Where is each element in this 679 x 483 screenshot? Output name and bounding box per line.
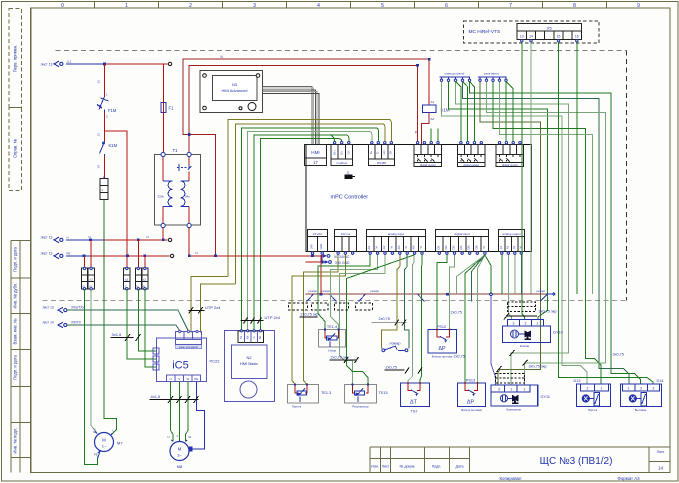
svg-text:V: V [178,377,180,381]
svg-text:Рекуператор: Рекуператор [352,405,369,409]
svg-text:3x0,75: 3x0,75 [613,353,624,357]
svg-text:D1-: D1- [340,150,344,154]
actuator GY11 [491,385,538,406]
wire bundle comms left (olive pair to RS485) [228,120,391,331]
wire olive TE1.3 pair [292,255,345,385]
coil K1M [428,59,430,105]
svg-text:x2: x2 [90,278,94,282]
svg-text:K1M: K1M [109,143,118,148]
svg-text:13: 13 [520,34,524,38]
svg-text:AI4: AI4 [412,245,416,249]
svg-text:analog input: analog input [388,232,405,236]
svg-text:Фильтр притока: Фильтр притока [432,354,453,358]
hop reserve right [541,293,556,301]
svg-text:3x1,5: 3x1,5 [112,332,123,337]
screen box TE15 [335,303,349,310]
HMI panel N2 [225,330,275,402]
connector RS485 [369,145,395,166]
wire iC5 motor leads [171,382,188,442]
wire iC5 comms drop [191,276,236,332]
svg-text:digital output: digital output [420,163,436,167]
svg-text:лист 13: лист 13 [43,306,54,310]
svg-text:Инв. № дубл.: Инв. № дубл. [13,283,18,309]
svg-text:DI6: DI6 [474,245,478,250]
svg-text:14: 14 [658,466,664,471]
svg-text:M8: M8 [177,464,183,469]
svg-text:J1: J1 [347,170,351,174]
wire RX1 [67,310,188,331]
svg-text:GY10: GY10 [553,331,563,335]
svg-text:N: N [94,428,96,432]
svg-text:24V out: 24V out [341,232,351,236]
wire X0 24VAC arrow [313,255,323,262]
svg-text:A1: A1 [499,245,503,249]
wire K1M A2 [422,113,430,145]
connector digital input [436,230,489,252]
svg-text:D14: D14 [657,379,664,383]
svg-text:N: N [136,285,138,289]
svg-text:A2: A2 [505,245,509,249]
svg-text:13: 13 [97,133,101,137]
svg-text:ТЕ1.4: ТЕ1.4 [327,325,337,329]
wire PS13 pair [457,255,492,383]
svg-text:резерв: резерв [309,290,318,293]
svg-text:комм. интерфейс: комм. интерфейс [179,346,199,349]
wire TE1.4 pair steps [318,255,378,330]
fuse holder FU below K1M [100,179,108,200]
svg-text:F1: F1 [169,106,175,111]
svg-text:A1: A1 [431,100,435,104]
wire PS12 pair [437,255,455,330]
connector digital output 1 [414,145,441,167]
svg-text:8: 8 [573,3,576,9]
svg-text:N: N [196,251,198,255]
svg-text:DI3: DI3 [452,245,456,250]
svg-text:230v: 230v [158,195,165,199]
svg-text:UTP 2x4: UTP 2x4 [205,305,221,310]
sensor TS7 [401,383,430,407]
cable HMI N3 gray [263,87,319,145]
svg-text:№ докум.: № докум. [400,465,416,469]
svg-text:M: M [375,246,379,248]
svg-text:D-: D- [376,151,380,154]
svg-text:A2: A2 [431,117,435,121]
svg-text:HMI Basic: HMI Basic [240,361,258,366]
svg-text:2x0,75 экр: 2x0,75 экр [331,356,349,360]
svg-text:U: U [168,435,170,439]
svg-text:RXx/TXx: RXx/TXx [72,306,85,310]
svg-text:M: M [102,438,106,443]
svg-text:13: 13 [97,80,101,84]
svg-text:1L1: 1L1 [67,59,72,63]
wire RX2 [67,325,180,331]
wire X5 15 [559,42,654,384]
svg-text:Взам. инв. №: Взам. инв. № [13,318,18,344]
wire N line A [183,59,429,256]
svg-text:HMI: HMI [311,150,319,155]
svg-text:Лист: Лист [657,450,665,454]
svg-text:2x0,75: 2x0,75 [386,366,397,370]
svg-text:GN: GN [382,150,386,154]
svg-text:2: 2 [189,3,192,9]
svg-text:M: M [178,447,182,452]
svg-text:TS7: TS7 [411,410,418,414]
svg-text:1: 1 [125,3,128,9]
svg-text:N: N [90,285,92,289]
svg-text:Подп. и дата: Подп. и дата [13,354,18,379]
svg-text:3x0,75 экр: 3x0,75 экр [539,310,557,314]
svg-text:1~: 1~ [102,443,107,448]
svg-text:2: 2 [511,388,513,392]
svg-text:M: M [419,246,423,248]
svg-text:U: U [170,377,172,381]
sensor TE1.4 [319,330,346,348]
controller U1 mPC [306,145,531,252]
svg-text:GN: GN [347,150,351,154]
svg-text:24 VAC: 24 VAC [313,232,322,236]
wire L1 red [105,63,168,65]
pins bottom connectors [313,252,522,256]
svg-text:3: 3 [513,322,515,326]
junction reserve [320,293,323,296]
screen box GY11 [496,374,525,384]
svg-text:DI1: DI1 [436,245,440,250]
wire M7 phase [85,289,98,464]
pins X5 [521,40,578,42]
svg-text:1: 1 [601,387,603,391]
wire GY11 triple [502,255,522,320]
junction A-B [188,133,191,136]
fan drive D14 [621,384,662,407]
svg-text:Изм.: Изм. [371,465,379,469]
wire TE15 pair steps [340,255,415,385]
svg-text:шина до (реле): шина до (реле) [445,71,465,75]
connector 24V out [335,230,357,252]
HMI panel N3 [200,71,263,113]
svg-text:D13: D13 [574,379,581,383]
svg-text:24V: 24V [310,244,314,249]
svg-text:AI2: AI2 [382,245,386,249]
enclosure boundary dashed top [56,50,627,52]
fuse group FU2 [82,268,95,289]
contact K1M [104,131,106,178]
bus comb 2 [478,77,507,82]
connector digital output 3 [496,145,523,167]
svg-text:2: 2 [587,387,589,391]
svg-text:modbus: modbus [336,161,347,165]
hop reserve 1 [307,294,337,301]
wire iC5 PE blue [191,382,205,450]
wire comb to digital output 2 [456,82,475,142]
svg-text:PC22: PC22 [210,359,221,364]
junction dots feeds [83,239,314,258]
svg-text:2x0,75 экр: 2x0,75 экр [301,313,319,317]
wire fire pair [381,255,409,349]
wire P to digital output [417,65,419,144]
svg-text:16: 16 [575,34,579,38]
MC HiRef-VTS dashed box [464,21,600,43]
cable mark GY11 [497,350,528,372]
svg-text:17: 17 [313,160,318,165]
node feed L ref arrow [54,61,63,67]
svg-text:Лист: Лист [382,465,390,469]
svg-text:G: G [252,336,256,338]
disconnect switch F1M [104,64,106,131]
svg-text:Копировал: Копировал [499,476,521,481]
bus comb 1 [440,77,471,82]
cable mark GY10 [506,315,537,317]
svg-text:4x1,5: 4x1,5 [151,394,162,399]
svg-text:лист 13: лист 13 [41,236,53,240]
svg-text:PE: PE [94,453,98,457]
svg-text:0: 0 [61,3,64,9]
svg-text:реле (вент): реле (вент) [484,71,499,75]
svg-text:TX: TX [239,336,243,340]
wire M7 second [91,289,97,433]
svg-text:Дата: Дата [456,465,464,469]
svg-text:1: 1 [628,387,630,391]
svg-text:N2: N2 [246,355,252,360]
svg-text:HMI Advanced: HMI Advanced [221,88,247,93]
svg-text:Инв. № подл.: Инв. № подл. [13,427,18,453]
svg-text:Клапан: Клапан [520,344,530,348]
motor M7 [94,432,114,453]
svg-text:N: N [143,285,145,289]
svg-text:3x0,75 экр: 3x0,75 экр [529,365,547,369]
svg-text:ΔP: ΔP [467,400,475,406]
svg-text:PS13: PS13 [466,378,475,382]
svg-text:M7: M7 [117,441,123,446]
svg-text:X00 GND: X00 GND [335,261,350,265]
reserve line [306,293,548,295]
node T1 terminals [161,152,191,227]
svg-text:M: M [404,246,408,248]
svg-text:T1: T1 [173,148,179,153]
svg-text:X0 24VAC: X0 24VAC [334,255,350,259]
svg-text:1: 1 [537,322,539,326]
svg-text:5: 5 [381,3,384,9]
title block [370,447,670,472]
svg-text:ТЕ15: ТЕ15 [379,391,388,395]
svg-text:MC HiRef-VTS: MC HiRef-VTS [469,29,501,35]
svg-text:DI5: DI5 [467,245,471,250]
svg-text:14: 14 [97,165,101,169]
svg-text:3: 3 [253,3,256,9]
svg-text:Освещение: Освещение [506,407,522,411]
svg-text:2x0,75: 2x0,75 [451,311,462,315]
svg-text:M: M [389,246,393,248]
node RX/TX arrows [58,307,67,328]
screen box TE1.4 [312,303,329,310]
wire X5 13 [522,42,525,320]
sensor PS12 [428,330,457,354]
svg-text:лист 13: лист 13 [41,63,53,67]
connector modbus [331,145,352,166]
svg-text:резерв: резерв [322,290,331,293]
svg-text:AI1: AI1 [367,245,371,249]
screen box TE1.3 [289,303,308,310]
svg-text:Приток: Приток [292,405,302,409]
sensor TE15 [345,385,377,404]
svg-text:X5: X5 [547,26,553,31]
enclosure boundary dashed mid [43,300,627,302]
svg-text:2: 2 [525,322,527,326]
svg-text:AI3: AI3 [397,245,401,249]
svg-text:ТЕ1.3: ТЕ1.3 [321,391,331,395]
svg-text:A3: A3 [512,245,516,249]
wire green drops to digital output 1 [431,129,438,142]
svg-text:DI2: DI2 [444,245,448,250]
wire comb to digital output 3 [506,82,513,142]
svg-text:Перв. примен.: Перв. примен. [13,45,18,73]
svg-text:9: 9 [637,3,640,9]
wire M7 third diag [111,430,117,436]
connector digital output 2 [458,145,485,167]
svg-text:W: W [189,435,192,439]
svg-text:3~: 3~ [177,452,182,457]
svg-text:SH: SH [389,151,393,155]
motor M8 [170,440,189,461]
sensor PS13 [458,383,486,407]
pins circles bottom [311,252,522,254]
wire L1 blue [66,63,105,65]
junction K1M top [428,58,431,61]
svg-text:Подп. и дата: Подп. и дата [13,246,18,271]
connector analog output [499,230,525,252]
svg-text:6: 6 [445,3,448,9]
enclosure boundary dashed right [626,51,628,301]
svg-text:GY11: GY11 [541,395,550,399]
wire red supply drop [320,255,322,294]
terminal block X5 [517,24,581,40]
wire iC5 supply 3 [145,289,156,367]
branch wire F1M to fuse group 2 [105,131,127,268]
connector supply term [308,230,328,252]
svg-text:Приток: Приток [588,408,598,412]
svg-text:14: 14 [529,34,533,38]
svg-text:2: 2 [653,387,655,391]
hop reserve 2 [359,294,425,301]
wire bundle relay right nested [442,81,641,385]
svg-text:x2: x2 [143,278,147,282]
junction F1M tap [103,63,106,66]
fuse group FU4 [135,268,148,289]
svg-text:RX/TX: RX/TX [72,321,82,325]
svg-text:SH: SH [258,336,262,340]
svg-text:N: N [89,235,91,239]
svg-text:лист 13: лист 13 [41,252,53,256]
transformer T1 [155,155,201,226]
svg-text:Фильтр вытяжки: Фильтр вытяжки [461,408,483,412]
sensor TE1.3 [288,385,319,404]
svg-text:лист 14: лист 14 [43,321,54,325]
switch fire [382,346,408,352]
svg-text:2x0,75: 2x0,75 [379,317,390,321]
wire feed3 right segment [189,255,322,257]
svg-text:пожар: пожар [390,342,401,346]
svg-text:N: N [83,285,85,289]
fuse group FU3 [124,268,130,289]
svg-text:F1M: F1M [108,108,117,113]
svg-text:15: 15 [557,34,561,38]
svg-text:N3: N3 [232,82,238,87]
svg-text:RX: RX [245,335,249,339]
wire green K1M fuse down [104,200,117,430]
svg-text:4: 4 [317,3,320,9]
wire TS7 pair [408,255,422,383]
connector analog input [367,230,426,252]
drive iC5 PC22 [153,330,207,381]
svg-text:Формат А3: Формат А3 [617,476,640,481]
svg-text:UTP 2x4: UTP 2x4 [265,315,281,320]
wire feed3 [66,255,91,257]
svg-text:Улица: Улица [328,349,336,353]
screen box TS7 [356,303,373,310]
svg-text:ΔP: ΔP [438,346,446,352]
svg-text:digital output: digital output [502,163,518,167]
svg-text:RS485: RS485 [377,161,387,165]
svg-text:analog output: analog output [502,232,520,236]
svg-text:7: 7 [509,3,512,9]
svg-text:1: 1 [524,388,526,392]
connector J1 [345,175,353,180]
svg-text:x2: x2 [125,278,129,282]
svg-text:digital input: digital input [454,232,469,236]
actuator GY10 [503,320,551,343]
connector HMI [305,145,327,166]
wire feed2 [66,239,105,241]
fan drive D13 [577,384,611,407]
svg-text:PE: PE [67,251,71,255]
fuse F1 [161,64,174,155]
svg-text:M: M [482,246,486,248]
svg-text:24v: 24v [185,195,190,199]
svg-text:N: N [67,235,69,239]
svg-text:ЩС №3 (ПВ1/2): ЩС №3 (ПВ1/2) [540,456,613,467]
svg-text:V: V [177,434,179,438]
svg-text:PE: PE [194,377,198,381]
node feed3 ref arrow [54,253,63,259]
svg-text:3: 3 [640,387,642,391]
svg-text:Справ. №: Справ. № [13,138,18,158]
svg-text:W: W [187,377,190,381]
svg-text:iC5: iC5 [172,360,189,372]
svg-text:резерв: резерв [537,290,546,293]
screen box GY10 [508,302,536,312]
svg-text:PS12: PS12 [437,325,446,329]
svg-text:ΔT: ΔT [410,400,418,406]
svg-text:N: N [147,235,149,239]
wire X5 16 [576,42,578,294]
svg-text:3: 3 [498,388,500,392]
node feed2 ref arrow [54,237,63,243]
svg-text:D1+: D1+ [333,150,337,155]
wire iC5 supply 1 [127,289,156,359]
svg-text:Вытяжка: Вытяжка [635,408,647,412]
svg-text:D+: D+ [369,150,373,154]
wire iC5 supply 2 [138,289,156,351]
svg-text:2x0,75: 2x0,75 [454,355,465,359]
svg-text:Подп.: Подп. [432,465,442,469]
wire N line B [189,65,417,154]
svg-text:резерв: резерв [371,290,380,293]
svg-text:DI4: DI4 [459,245,463,250]
svg-text:mPC Controller: mPC Controller [331,195,369,201]
svg-text:digital output: digital output [463,163,479,167]
wire X5 14 [530,42,532,294]
svg-text:GND: GND [319,243,323,249]
terminal X1 [168,62,171,65]
